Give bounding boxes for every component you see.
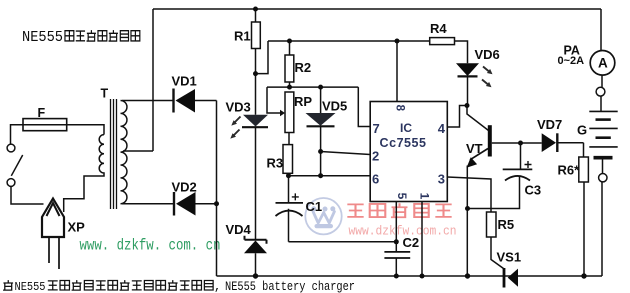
wire VD5 column <box>320 87 322 176</box>
svg-text:A: A <box>598 56 608 71</box>
wire bottom rail <box>217 275 603 277</box>
ammeter PA <box>590 51 615 97</box>
thyristor VS1 <box>503 268 518 288</box>
wire R2 branch <box>289 41 291 87</box>
wire RP wiper <box>267 87 281 113</box>
svg-text:R1: R1 <box>234 29 251 44</box>
wire C3 top link <box>520 143 522 169</box>
svg-text:VD5: VD5 <box>322 99 347 114</box>
wire ammeter branch <box>601 9 602 111</box>
wire top positive rail <box>153 8 601 10</box>
watermark pink brand glyphs <box>347 203 451 217</box>
svg-text:Cc7555: Cc7555 <box>380 136 427 150</box>
wire pin2 <box>321 152 371 155</box>
svg-text:3: 3 <box>438 172 445 187</box>
wire base <box>492 142 521 144</box>
svg-text:NE555: NE555 <box>22 29 63 46</box>
wire divider bus y87 <box>267 86 358 88</box>
svg-text:IC: IC <box>400 121 412 135</box>
svg-text:www. dzkfw. com. cn: www. dzkfw. com. cn <box>80 237 221 255</box>
resistor R2 <box>285 55 294 82</box>
wire pin3 to R5 <box>447 177 491 212</box>
wire VD1/VD2 common vertical <box>216 101 218 277</box>
wire VD7 to R6 <box>557 143 583 157</box>
wire R6 bottom <box>583 182 585 276</box>
wire emitter column <box>466 166 468 277</box>
diode VD1 <box>174 89 196 113</box>
wire base node to VD7 <box>521 142 542 144</box>
wire C3 bottom to emitter <box>468 177 520 209</box>
wire bus to R4 and VD6 <box>268 41 468 63</box>
resistor R5 <box>487 212 497 237</box>
svg-text:VD7: VD7 <box>537 117 562 132</box>
svg-text:VD1: VD1 <box>172 74 197 89</box>
svg-text:RP: RP <box>294 94 312 109</box>
wire pin1 <box>421 202 423 277</box>
svg-text:G: G <box>577 123 587 138</box>
wire R1 column <box>255 9 257 276</box>
svg-text:C1: C1 <box>306 199 323 214</box>
wire R5 to VS1 gate <box>491 237 504 269</box>
main wiring <box>122 9 603 276</box>
IC U1 7555 <box>370 102 447 202</box>
primary winding <box>64 135 104 212</box>
diode VD7 <box>542 133 558 152</box>
diode VD2 <box>174 192 196 216</box>
resistor R4 <box>430 38 455 45</box>
svg-text:C2: C2 <box>403 235 420 250</box>
svg-text:1: 1 <box>418 193 432 200</box>
plug XP <box>42 199 64 270</box>
transistor VT <box>467 125 492 168</box>
wire pin4 to VD6 node <box>447 106 467 128</box>
svg-text:6: 6 <box>372 172 379 187</box>
svg-text:VD2: VD2 <box>172 180 197 195</box>
resistor R6 <box>579 157 589 182</box>
battery G <box>589 111 617 181</box>
zener VD4 <box>244 236 267 254</box>
core <box>111 99 117 209</box>
wire R1-bottom to bus link <box>256 41 269 74</box>
svg-text:5: 5 <box>395 193 409 200</box>
svg-text:NE555 battery charger: NE555 battery charger <box>225 280 355 293</box>
svg-text:2: 2 <box>372 149 379 164</box>
svg-text:VD3: VD3 <box>226 100 251 115</box>
diode VD5 <box>306 113 336 126</box>
wire C1 column <box>288 176 290 242</box>
title text NE555 battery-charging circuit diagram <box>22 29 140 46</box>
svg-text:VD6: VD6 <box>475 47 500 62</box>
svg-text:F: F <box>38 106 46 120</box>
svg-text:VD4: VD4 <box>226 222 252 237</box>
svg-text:NE555: NE555 <box>15 281 46 293</box>
capacitor C1 <box>276 193 304 216</box>
caption bottom <box>3 280 355 293</box>
wire C1 to pin5 <box>289 241 397 243</box>
wire pin5/C2 <box>395 202 397 277</box>
wire pin7 link <box>358 87 370 126</box>
wire battery bottom <box>601 160 604 277</box>
svg-text:R4: R4 <box>430 21 447 36</box>
svg-text:R6*: R6* <box>558 163 581 178</box>
svg-text:C3: C3 <box>525 183 542 198</box>
wire secondary top to VD1 anode <box>122 100 217 102</box>
secondary winding <box>121 101 127 204</box>
svg-text:T: T <box>101 87 109 101</box>
svg-text:4: 4 <box>438 121 446 136</box>
svg-text:VS1: VS1 <box>497 250 522 265</box>
switch S <box>7 144 43 204</box>
resistor R3 <box>283 145 293 174</box>
wire pin6 <box>289 175 371 177</box>
capacitor C2 <box>384 252 410 258</box>
svg-text:0~2A: 0~2A <box>558 55 585 67</box>
capacitor C3 <box>503 161 533 181</box>
wire secondary bottom to VD2 <box>122 203 217 205</box>
LED VD6 <box>456 63 493 87</box>
svg-text:R3: R3 <box>267 156 284 171</box>
resistor R1 <box>252 22 261 49</box>
svg-text:8: 8 <box>394 105 406 112</box>
potentiometer RP <box>280 92 294 133</box>
LED VD3 <box>230 115 268 139</box>
wire center-tap riser <box>123 9 153 151</box>
svg-text:R5: R5 <box>498 217 515 232</box>
wire VD6 to collector node <box>467 76 469 105</box>
wire pin8 drop <box>396 41 398 102</box>
svg-text:VT: VT <box>466 141 483 156</box>
svg-text:R2: R2 <box>295 60 312 75</box>
svg-text:7: 7 <box>373 121 380 136</box>
transformer T <box>64 99 127 212</box>
wire RP to R3 <box>288 133 291 176</box>
svg-text:,: , <box>214 280 221 293</box>
wire collector <box>467 106 489 131</box>
watermark blue logo <box>305 198 341 234</box>
fuse F <box>11 119 105 145</box>
svg-text:XP: XP <box>68 220 86 235</box>
